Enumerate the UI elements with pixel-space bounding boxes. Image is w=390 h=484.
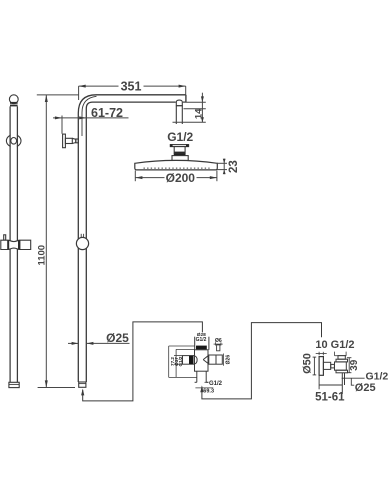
valve top port (194, 337, 196, 350)
svg-text:39: 39 (349, 359, 360, 371)
valve left dome (195, 356, 198, 364)
arrow O200 right (210, 176, 217, 179)
valve body (195, 350, 209, 371)
svg-text:G1/2: G1/2 (209, 381, 223, 387)
valve nipple (217, 345, 220, 351)
valve 69.3 line (195, 387, 213, 389)
arrow at valve bottom (200, 385, 203, 392)
connection path elbow to valve (202, 323, 322, 399)
shower head spool dark band (174, 154, 186, 156)
elbow nut upper flange (336, 359, 348, 362)
arm stub right (181, 102, 183, 124)
svg-text:Ø26: Ø26 (225, 355, 231, 365)
slide bar slider (1, 240, 31, 249)
dim O25 line (68, 342, 78, 344)
svg-text:Ø6: Ø6 (215, 338, 222, 344)
dim O200 line (135, 177, 164, 179)
dim 351 extensions (78, 86, 80, 100)
arm stub left (175, 102, 177, 124)
dim 14 extension mid (184, 108, 206, 110)
dim 23 line (223, 159, 225, 175)
connection path riser to valve (83, 322, 203, 401)
O25 right hook (351, 378, 354, 385)
dim 14 extension top (186, 101, 206, 103)
arrow O25 left (72, 342, 79, 345)
svg-text:G1/2: G1/2 (366, 371, 389, 383)
arrow 14 top (201, 96, 204, 102)
svg-text:61-72: 61-72 (91, 106, 123, 120)
dim 14 extension bottom (173, 121, 206, 123)
valve bottom port (196, 371, 198, 382)
arrow 61-72 left (55, 116, 62, 119)
elbow neck (323, 362, 330, 369)
valve top black band (196, 346, 207, 350)
arrow 1100 bottom (45, 380, 48, 387)
arrows for main dims (45, 85, 226, 388)
dim 1100 extension bottom (38, 387, 75, 389)
svg-text:Ø25: Ø25 (355, 382, 376, 394)
valve left dim line 2 (175, 349, 177, 377)
slide bar collar (10, 102, 18, 107)
valve G1/2 bottom leader (205, 381, 209, 383)
dim 51-61 (318, 376, 320, 390)
dim G1/2 bracket (334, 352, 336, 356)
elbow down pipe (341, 373, 343, 394)
wall bracket plate (63, 134, 66, 148)
svg-text:G1/2: G1/2 (196, 337, 207, 343)
dim 1100 line (45, 95, 47, 388)
svg-text:Ø25: Ø25 (106, 331, 129, 345)
riser bottom cap (79, 382, 86, 387)
svg-text:Ø50: Ø50 (301, 353, 313, 374)
dim 351 line (79, 85, 119, 87)
dim O6 extensions (215, 342, 217, 345)
slide bar body (9, 106, 11, 382)
slide bar knob (9, 95, 18, 104)
svg-text:Ø200: Ø200 (166, 171, 196, 185)
shower head spray dots (144, 167, 210, 169)
valve right cone (203, 355, 209, 364)
valve right port (209, 355, 223, 364)
G1/2 right leader (342, 377, 365, 379)
valve left port edge extensions (174, 355, 183, 357)
elbow waist (331, 364, 335, 368)
dim O200 extensions (134, 171, 136, 182)
wall bracket arm (65, 138, 72, 143)
svg-text:G1/2: G1/2 (178, 356, 183, 366)
elbow nut body (335, 362, 347, 370)
wall bracket ring (76, 139, 79, 143)
arrow 14 bottom (201, 117, 204, 122)
dim 10 ticks (318, 352, 320, 356)
elbow flange disc (319, 357, 323, 376)
dim 39 line (348, 358, 350, 373)
valve left port (183, 356, 195, 365)
wall bracket taper (72, 138, 76, 143)
valve right port divider (215, 355, 217, 364)
svg-text:14: 14 (193, 108, 204, 119)
svg-text:51-61: 51-61 (315, 392, 345, 404)
arrow 61-72 right (79, 116, 86, 119)
arrow 23 top (223, 159, 226, 164)
arrow 23 bottom (223, 170, 226, 175)
svg-text:10 G1/2: 10 G1/2 (315, 339, 354, 351)
valve bottom feet (195, 381, 197, 383)
arrow O25 right (87, 342, 94, 345)
riser pipe inner edge (86, 102, 176, 382)
shower head hub (172, 156, 188, 161)
dim 61-72 extension (61, 116, 63, 134)
shower head spool box (174, 147, 185, 154)
dim 1100 extension top (37, 94, 79, 96)
arrow 1100 top (45, 95, 48, 102)
shower head disc (135, 160, 218, 170)
arm end (185, 95, 187, 102)
slide bar bottom cap (9, 382, 19, 387)
riser pipe with top arm (outer edge) (78, 95, 186, 382)
svg-text:69.3: 69.3 (203, 389, 214, 395)
dim O50 line (313, 357, 315, 375)
slide bar wall ring (6, 135, 21, 147)
svg-text:G1/2: G1/2 (167, 130, 193, 144)
dim 23 extensions (217, 162, 227, 164)
svg-text:351: 351 (121, 79, 142, 93)
svg-text:23: 23 (228, 160, 240, 173)
riser highlight line (82, 96, 97, 136)
arrow 351 right (179, 85, 186, 88)
slide bar slider knob (4, 235, 6, 240)
valve left dim line 77.2 (168, 346, 170, 377)
dim 14 line (201, 93, 203, 123)
shower head top plate (170, 145, 188, 147)
elbow nut bottom flange (336, 370, 348, 373)
valve left black band (189, 356, 194, 364)
arrow O200 left (135, 176, 142, 179)
dim 61-72 line (53, 117, 129, 119)
arm stub dome (176, 100, 182, 102)
riser ball joint (80, 234, 82, 238)
elbow nut top stub (338, 356, 345, 360)
valve right end extension (222, 354, 224, 366)
arrow 351 left (79, 85, 86, 88)
arrow at riser bottom (81, 389, 84, 396)
svg-text:1100: 1100 (36, 245, 47, 266)
